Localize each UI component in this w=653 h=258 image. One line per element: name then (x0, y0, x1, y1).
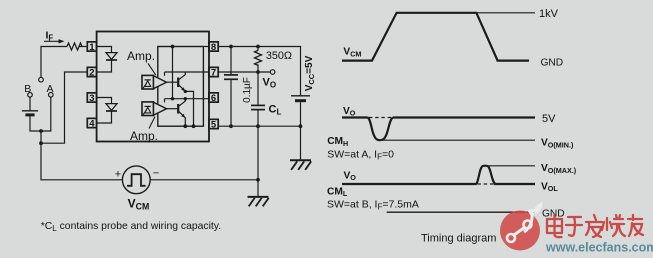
svg-text:+: + (115, 169, 121, 181)
svg-text:Amp.: Amp. (130, 129, 158, 143)
svg-text:5: 5 (211, 119, 217, 130)
svg-text:6: 6 (211, 93, 216, 104)
svg-text:*CL contains probe and wiring: *CL contains probe and wiring capacity. (41, 221, 221, 233)
svg-text:−: − (153, 168, 159, 180)
svg-text:SW=at A, IF=0: SW=at A, IF=0 (327, 149, 394, 162)
svg-text:1kV: 1kV (539, 8, 559, 20)
svg-text:B: B (24, 83, 31, 95)
svg-text:Amp.: Amp. (127, 49, 155, 63)
svg-text:A: A (46, 83, 53, 95)
svg-text:5V: 5V (542, 113, 556, 125)
svg-text:SW=at B, IF=7.5mA: SW=at B, IF=7.5mA (327, 199, 419, 212)
svg-text:8: 8 (211, 42, 216, 53)
svg-text:VCC=5V: VCC=5V (304, 55, 316, 91)
svg-text:7: 7 (211, 67, 216, 78)
svg-text:www.elecfans.com: www.elecfans.com (545, 241, 653, 255)
svg-text:2: 2 (89, 67, 94, 78)
svg-text:1: 1 (89, 42, 95, 53)
svg-text:3: 3 (89, 93, 94, 104)
svg-text:350Ω: 350Ω (266, 50, 292, 62)
svg-text:0.1µF: 0.1µF (242, 77, 253, 103)
svg-text:GND: GND (542, 208, 565, 219)
svg-text:Timing diagram: Timing diagram (421, 232, 496, 244)
svg-text:GND: GND (541, 57, 564, 68)
svg-text:4: 4 (89, 118, 95, 129)
